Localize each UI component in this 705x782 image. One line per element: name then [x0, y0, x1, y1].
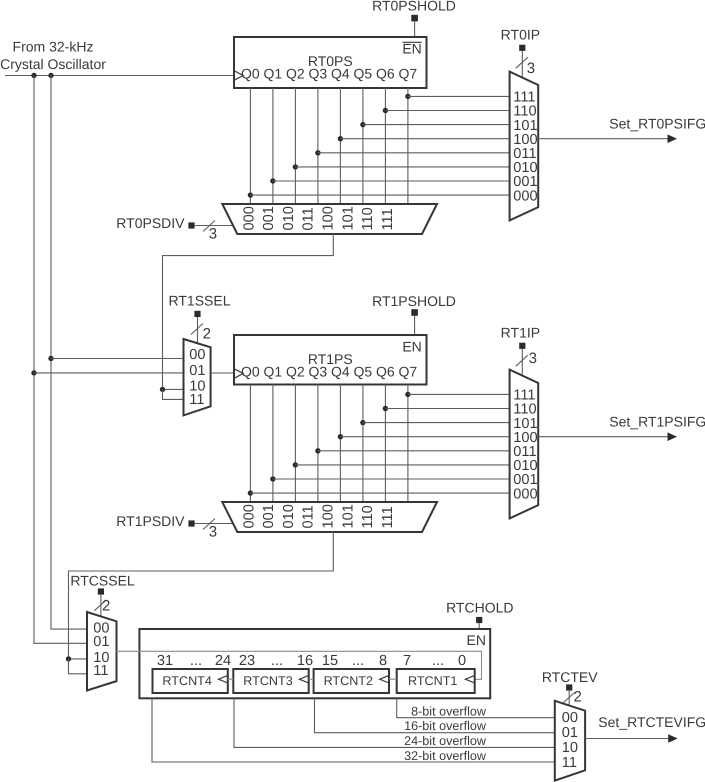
svg-text:010: 010	[281, 504, 297, 528]
node RT0PSDIV terminal square	[188, 222, 194, 228]
svg-text:3: 3	[209, 524, 217, 541]
wire RT1PS output to RTCSSEL input 11	[69, 659, 88, 674]
bus slash RT1PSDIV	[203, 519, 215, 530]
wire RTCHOLD to EN	[478, 623, 480, 629]
wire rail 1 tap to RT1SSEL input 01	[34, 372, 184, 374]
svg-text:Set_RTCTEVIFG: Set_RTCTEVIFG	[598, 714, 705, 730]
svg-text:01: 01	[562, 725, 578, 741]
labels RT1SSEL mux inputs 00-11	[189, 347, 205, 408]
junction RT1PS output at RTCSSEL input 10	[66, 656, 71, 661]
mux RT1SSEL	[184, 339, 211, 415]
block RT0PS	[234, 37, 427, 88]
svg-text:Q0: Q0	[241, 364, 260, 380]
bus slash RT1IP	[516, 355, 528, 366]
svg-text:11: 11	[189, 392, 204, 408]
pin clock of RTCNT3	[299, 675, 308, 683]
svg-text:32-bit overflow: 32-bit overflow	[404, 749, 487, 763]
svg-text:001: 001	[261, 206, 277, 230]
wire rail 2 (32-kHz) down to RTCSSEL input 00	[51, 76, 88, 630]
svg-text:Q4: Q4	[331, 66, 350, 82]
mux RT0PSDIV divider	[222, 204, 437, 234]
svg-text:01: 01	[189, 363, 205, 379]
svg-text:2: 2	[574, 689, 582, 706]
node RT1PSDIV terminal square	[188, 520, 194, 526]
svg-text:Q5: Q5	[354, 66, 373, 82]
svg-text:RTCNT2: RTCNT2	[324, 674, 373, 688]
svg-text:RT1IP: RT1IP	[501, 325, 540, 341]
wire Set_RT0PSIFG output	[538, 138, 668, 140]
svg-text:110: 110	[360, 207, 376, 230]
junction on 32-kHz wire (rail 2)	[48, 73, 53, 78]
labels RT1IP mux inputs 111-000	[513, 388, 537, 503]
labels RT1PSDIV mux inputs 000-111 (rotated)	[241, 504, 396, 528]
mux RTCSSEL	[87, 612, 117, 691]
svg-text:...: ...	[352, 653, 364, 669]
mux RT0IP	[510, 72, 539, 221]
labels RT0PSDIV mux inputs 000-111 (rotated)	[241, 206, 396, 230]
svg-text:10: 10	[562, 740, 578, 756]
wire RT1SSEL select into mux	[197, 317, 199, 344]
svg-text:000: 000	[241, 504, 257, 528]
svg-text:3: 3	[527, 60, 535, 77]
svg-text:Q7: Q7	[399, 364, 418, 380]
svg-text:EN: EN	[467, 632, 486, 648]
svg-text:24-bit overflow: 24-bit overflow	[404, 734, 487, 748]
svg-text:Q2: Q2	[286, 66, 305, 82]
wires Q0-Q7 taps to RT0IP mux with junctions	[248, 94, 510, 198]
pin clock input of RT1PS	[234, 369, 243, 379]
bus slash RTCTEV	[563, 692, 575, 703]
labels RTC counter bit ranges 31...24 23...16 15...8 7...0	[157, 653, 466, 669]
svg-text:RTCNT4: RTCNT4	[162, 674, 211, 688]
node RT1SSEL terminal square	[194, 311, 200, 317]
wires Q0-Q7 taps to RT1IP mux with junctions	[248, 392, 510, 496]
svg-text:Q4: Q4	[331, 364, 350, 380]
wire RT1PSHOLD to EN	[414, 316, 416, 336]
svg-text:...: ...	[271, 653, 283, 669]
svg-text:Q6: Q6	[376, 364, 395, 380]
node RTCHOLD terminal square	[476, 617, 482, 623]
svg-text:2: 2	[102, 598, 110, 615]
svg-text:Q1: Q1	[264, 364, 283, 380]
svg-text:000: 000	[513, 486, 537, 502]
register RTCNT2	[314, 669, 389, 693]
labels RT0IP mux inputs 111-000	[513, 90, 537, 205]
wire 16-bit overflow to RTCTEV input	[315, 698, 555, 732]
svg-text:Q3: Q3	[309, 364, 328, 380]
svg-text:111: 111	[380, 208, 396, 230]
svg-text:110: 110	[360, 505, 376, 528]
wire ripple RTCNT2 to RTCNT1... carry chains between registers	[228, 678, 234, 680]
mux RTCTEV	[555, 701, 585, 781]
labels RTCSSEL mux inputs 00-11	[93, 620, 109, 679]
svg-text:3: 3	[209, 226, 217, 243]
svg-text:24: 24	[215, 653, 231, 669]
svg-text:16-bit overflow: 16-bit overflow	[404, 719, 487, 733]
junction on 32-kHz wire (rail 1)	[31, 73, 36, 78]
pin clock of RTCNT1	[465, 675, 474, 683]
wire RT1PS divided output to RTCSSEL inputs 10 and 11	[69, 532, 334, 659]
pin clock of RTCNT4	[219, 675, 228, 683]
svg-text:Q0: Q0	[241, 66, 260, 82]
svg-text:010: 010	[281, 206, 297, 230]
arrow Set_RTCTEVIFG	[668, 734, 678, 743]
wire RT1PSDIV select into mux	[195, 523, 234, 525]
svg-text:Set_RT0PSIFG: Set_RT0PSIFG	[609, 116, 705, 132]
pin clock input of RT0PS	[234, 71, 243, 81]
node RT0IP terminal square	[519, 45, 525, 51]
svg-text:Q1: Q1	[264, 66, 283, 82]
wire RT0PSHOLD to EN	[414, 21, 416, 37]
svg-text:23: 23	[239, 653, 255, 669]
wire RT0IP select into mux	[521, 51, 523, 78]
svg-text:00: 00	[189, 347, 205, 363]
svg-text:100: 100	[321, 504, 337, 528]
svg-text:RTCNT1: RTCNT1	[408, 674, 457, 688]
bus slash RTCSSEL	[94, 600, 106, 611]
node RTCSSEL terminal square	[98, 588, 104, 594]
pin clock of RTCNT2	[380, 675, 389, 683]
bus slash RT0PSDIV	[203, 221, 215, 232]
wires Q0-Q7 of RT0PS down to RT0PSDIV mux	[250, 88, 408, 204]
svg-text:RTCNT3: RTCNT3	[243, 674, 292, 688]
svg-text:001: 001	[261, 504, 277, 528]
wire RT0PSDIV select into mux	[195, 225, 234, 227]
svg-text:Q5: Q5	[354, 364, 373, 380]
wire RTCSSEL select into mux	[100, 595, 102, 617]
svg-text:EN: EN	[402, 41, 421, 57]
svg-text:RT1PSHOLD: RT1PSHOLD	[372, 293, 456, 309]
mux RT1IP	[510, 370, 539, 519]
svg-text:RT1PSDIV: RT1PSDIV	[116, 513, 185, 529]
svg-text:RTCSSEL: RTCSSEL	[70, 572, 135, 588]
svg-text:0: 0	[458, 653, 466, 669]
svg-text:RT1SSEL: RT1SSEL	[169, 292, 231, 308]
svg-text:3: 3	[529, 350, 537, 367]
svg-text:RTCHOLD: RTCHOLD	[446, 599, 513, 615]
svg-text:RTCTEV: RTCTEV	[542, 669, 598, 685]
wire 32-bit overflow to RTCTEV input	[152, 698, 555, 762]
svg-text:Q6: Q6	[376, 66, 395, 82]
svg-text:EN: EN	[402, 339, 421, 355]
wire Set_RTCTEVIFG output	[585, 738, 668, 740]
junction rail 1 tap to RT1SSEL input 01	[31, 370, 36, 375]
arrow Set_RT1PSIFG	[668, 432, 678, 441]
wire rail 1 (32-kHz) down to RTCSSEL input 01	[34, 76, 88, 644]
svg-text:15: 15	[322, 653, 338, 669]
wire 8-bit overflow to RTCTEV input	[397, 698, 555, 717]
wire RT1IP select into mux	[521, 349, 523, 376]
svg-text:000: 000	[241, 206, 257, 230]
svg-text:01: 01	[93, 634, 109, 650]
svg-text:31: 31	[157, 653, 173, 669]
svg-text:RT0IP: RT0IP	[501, 27, 540, 43]
pin EN (active low) of RT0PS	[403, 41, 422, 43]
svg-text:011: 011	[301, 505, 317, 528]
svg-text:000: 000	[513, 188, 537, 204]
register RTCNT1	[397, 669, 475, 693]
register RTCNT3	[233, 669, 308, 693]
svg-text:16: 16	[297, 653, 313, 669]
svg-text:Q3: Q3	[309, 66, 328, 82]
svg-text:7: 7	[403, 653, 411, 669]
svg-text:Set_RT1PSIFG: Set_RT1PSIFG	[609, 414, 705, 430]
wire Set_RT1PSIFG output	[538, 436, 668, 438]
svg-text:101: 101	[340, 206, 356, 230]
bus slash RT0IP	[516, 57, 528, 68]
svg-text:8-bit overflow: 8-bit overflow	[411, 704, 487, 718]
arrow Set_RT0PSIFG	[668, 134, 678, 143]
svg-text:100: 100	[321, 206, 337, 230]
junction RT0PS output at RT1SSEL input 10	[160, 387, 165, 392]
svg-text:...: ...	[190, 653, 202, 669]
wire rail 2 tap to RT1SSEL input 00	[51, 358, 184, 360]
junction rail 2 tap to RT1SSEL input 00	[48, 356, 53, 361]
wire RT0PS output to RT1SSEL input 11	[163, 389, 185, 399]
svg-text:RT0PSDIV: RT0PSDIV	[116, 215, 185, 231]
labels RTCTEV mux inputs 00-11	[562, 710, 578, 771]
wires Q0-Q7 of RT1PS down to RT1PSDIV mux	[250, 385, 408, 503]
svg-text:111: 111	[380, 506, 396, 528]
svg-text:RT0PSHOLD: RT0PSHOLD	[372, 0, 456, 13]
wire RT0PS divided output to RT1SSEL inputs 10 and 11	[163, 234, 334, 389]
wire RTCTEV select into mux	[568, 691, 570, 707]
svg-text:11: 11	[562, 755, 577, 771]
block RT1PS	[234, 335, 427, 385]
wire RT1SSEL output to RT1PS clock	[211, 372, 234, 374]
svg-text:101: 101	[340, 504, 356, 528]
svg-text:Crystal Oscillator: Crystal Oscillator	[0, 56, 106, 72]
node RT0PSHOLD terminal square	[411, 15, 418, 22]
node RT1PSHOLD terminal square	[411, 309, 418, 316]
bus slash RT1SSEL	[191, 324, 203, 335]
svg-text:...: ...	[432, 653, 444, 669]
wire RTCSSEL output clock into counter and to RTCNT1 clock	[117, 651, 482, 679]
svg-text:8: 8	[379, 653, 387, 669]
svg-text:2: 2	[203, 326, 211, 343]
node RTCTEV terminal square	[566, 684, 572, 690]
pins Q0-Q7 of RT0PS	[241, 66, 417, 82]
wire 24-bit overflow to RTCTEV input	[234, 698, 555, 747]
svg-text:Q2: Q2	[286, 364, 305, 380]
mux RT1PSDIV divider	[222, 502, 437, 532]
svg-text:Q7: Q7	[399, 66, 418, 82]
svg-text:00: 00	[562, 710, 578, 726]
node RT1IP terminal square	[519, 343, 525, 349]
register RTCNT4	[153, 669, 228, 693]
svg-text:011: 011	[301, 207, 317, 230]
wire 32-kHz clock to RT0PS	[5, 75, 234, 77]
block RTC counter	[139, 629, 490, 698]
svg-text:From 32-kHz: From 32-kHz	[13, 39, 94, 55]
svg-text:11: 11	[93, 663, 108, 679]
pins Q0-Q7 of RT1PS	[241, 364, 417, 380]
